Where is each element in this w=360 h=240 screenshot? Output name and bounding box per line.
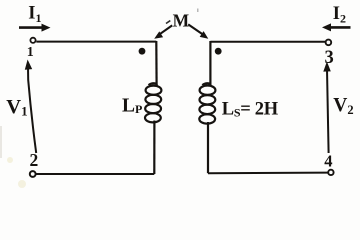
wire LS top lead [209,41,211,85]
svg-text:LS= 2H: LS= 2H [222,99,279,119]
wire LP bottom lead [153,121,155,175]
voltage arrow V1 [25,60,36,154]
polarity dot LP [139,48,146,55]
wire bottom-right [208,172,328,175]
wire bottom-left [36,173,154,175]
svg-text:M: M [173,11,190,31]
tick left of M [166,21,170,24]
inductor LP coil [145,83,161,122]
wire LS bottom lead [207,122,209,173]
terminal 3 [326,40,332,46]
current arrow I2 [322,23,351,31]
voltage arrow V2 [323,62,331,154]
svg-text:2: 2 [30,150,39,170]
current arrow I1 [19,24,51,32]
wire top-right [210,41,325,43]
svg-text:4: 4 [324,151,332,170]
polarity dot LS [215,48,222,55]
terminal 4 [328,170,333,175]
wire LP top lead [155,41,158,85]
mutual arrow to LP [154,25,172,38]
svg-text:1: 1 [27,45,34,60]
mutual arrow to LS [188,24,208,38]
wire top-left [36,41,156,43]
terminal 1 [30,38,35,43]
terminal 2 [30,171,36,177]
inductor LS coil [199,83,215,123]
